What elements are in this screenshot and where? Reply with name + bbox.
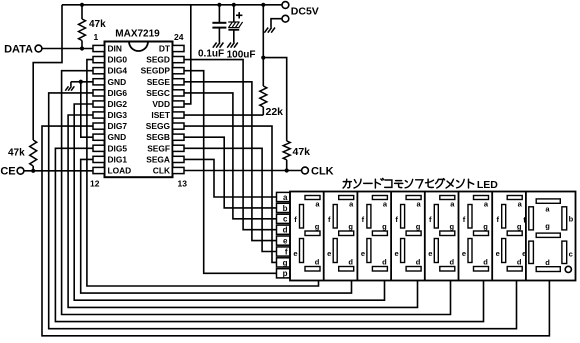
svg-text:b: b: [569, 215, 574, 224]
wire SEGB to segment bus b: [184, 137, 277, 208]
node rail junction 22k branch: [261, 3, 265, 7]
svg-text:d: d: [315, 257, 320, 266]
svg-text:d: d: [483, 257, 488, 266]
capacitor C2 100uF: [228, 5, 242, 43]
7-segment display block: [290, 192, 576, 281]
U1 right pin labels: [141, 44, 171, 176]
terminal DC5V +: [282, 2, 289, 9]
svg-text:g: g: [348, 222, 353, 231]
svg-text:b: b: [283, 204, 288, 213]
svg-text:DIG3: DIG3: [108, 110, 128, 120]
svg-text:e: e: [395, 249, 399, 258]
svg-text:c: c: [569, 249, 573, 258]
node junction R1-DATA: [80, 46, 84, 50]
wire gnd terminal lead: [271, 19, 282, 28]
svg-text:GND: GND: [108, 77, 127, 87]
digit 7 segments: [496, 196, 523, 272]
digit 4 segments: [395, 196, 422, 272]
node rail junction C1: [217, 3, 221, 7]
svg-text:DIN: DIN: [108, 44, 122, 54]
svg-text:e: e: [496, 249, 500, 258]
wire DATA to DIN: [42, 48, 93, 50]
resistor R4 47k (CLK pull-up): [283, 141, 290, 171]
ground (C1): [213, 43, 224, 48]
label pin 24: [174, 32, 184, 42]
wire DIG7 to digit 8 common: [42, 126, 549, 336]
wire DIG5 to digit 6 common: [55, 148, 483, 321]
svg-text:d: d: [517, 257, 522, 266]
svg-text:SEGD: SEGD: [146, 55, 170, 65]
svg-text:g: g: [483, 222, 488, 231]
label DATA: [4, 43, 33, 55]
node junction GND: [79, 80, 83, 84]
svg-text:a: a: [283, 193, 288, 202]
svg-text:LED: LED: [477, 179, 498, 191]
ground (U1 GND): [65, 82, 81, 91]
svg-text:DATA: DATA: [4, 43, 33, 55]
label R2 47k: [8, 148, 25, 159]
svg-text:SEGF: SEGF: [147, 143, 170, 153]
svg-text:e: e: [428, 249, 432, 258]
svg-text:e: e: [283, 237, 288, 246]
wire DIG0 to digit 1 common: [87, 60, 319, 286]
svg-text:g: g: [450, 222, 455, 231]
wire DIG6 to digit 7 common: [49, 93, 517, 329]
digit 8 segments: [522, 199, 573, 273]
svg-text:g: g: [315, 222, 320, 231]
wire SEGC to segment bus c: [184, 93, 277, 219]
digit 6 segments: [462, 196, 489, 272]
digit 1 segments: [293, 196, 320, 272]
svg-text:DIG2: DIG2: [108, 99, 128, 109]
digit 3 segments: [361, 196, 388, 272]
svg-text:d: d: [545, 258, 550, 267]
label C1 0.1uF: [198, 49, 224, 60]
svg-text:GND: GND: [108, 132, 127, 142]
terminal CLK: [302, 167, 309, 174]
svg-text:g: g: [382, 222, 387, 231]
label R1 47k: [89, 19, 106, 30]
wire DIG4 to digit 5 common: [62, 71, 451, 315]
wire VDD to rail: [184, 5, 191, 104]
svg-text:1: 1: [94, 32, 99, 42]
terminal DATA: [35, 45, 42, 52]
node junction R2-CE: [31, 169, 35, 173]
node junction R4-CLK: [285, 168, 289, 172]
svg-text:SEGB: SEGB: [146, 132, 170, 142]
label pin 12: [90, 178, 100, 188]
label C2 100uF: [227, 50, 256, 61]
svg-text:DIG7: DIG7: [108, 121, 128, 131]
svg-text:d: d: [382, 257, 387, 266]
wire SEGA to segment bus a: [184, 159, 277, 197]
svg-text:SEGG: SEGG: [146, 121, 170, 131]
node rail junction C2: [232, 3, 236, 7]
svg-text:d: d: [348, 257, 353, 266]
wire SEGF to segment bus f: [184, 148, 277, 251]
ground (DC5V return): [264, 28, 275, 33]
svg-text:SEGA: SEGA: [146, 154, 170, 164]
label CLK: [311, 166, 334, 178]
label display title (katakana): [343, 178, 498, 190]
svg-text:13: 13: [178, 178, 188, 188]
wire SEGDP to segment bus p: [184, 71, 277, 274]
svg-text:g: g: [517, 222, 522, 231]
svg-text:SEGDP: SEGDP: [141, 66, 171, 76]
svg-text:d: d: [450, 257, 455, 266]
svg-text:d: d: [416, 257, 421, 266]
label U1 MAX7219: [115, 29, 160, 40]
svg-text:47k: 47k: [8, 148, 25, 159]
svg-text:DC5V: DC5V: [291, 6, 319, 18]
svg-text:e: e: [462, 249, 466, 258]
svg-text:47k: 47k: [89, 19, 106, 30]
svg-text:g: g: [416, 222, 421, 231]
segment bus pin boxes: [277, 192, 291, 278]
svg-text:MAX7219: MAX7219: [115, 29, 160, 40]
svg-text:DIG5: DIG5: [108, 143, 128, 153]
U1 left pin boxes: [93, 45, 105, 173]
resistor R2 47k (CE pull-up): [30, 140, 37, 171]
svg-text:c: c: [283, 215, 288, 224]
svg-text:e: e: [361, 249, 365, 258]
label pin 1: [94, 32, 99, 42]
resistor R3 22k (ISET): [260, 58, 267, 115]
svg-text:DIG4: DIG4: [108, 66, 128, 76]
svg-text:SEGC: SEGC: [146, 88, 170, 98]
svg-text:p: p: [283, 269, 288, 278]
U1 right pin boxes: [173, 45, 185, 173]
wire VCC left drop to CE pull-up: [33, 5, 62, 140]
capacitor C1 0.1uF: [212, 5, 226, 43]
digit 5 segments: [428, 196, 455, 272]
svg-text:DT: DT: [159, 44, 171, 54]
svg-text:DIG1: DIG1: [108, 154, 128, 164]
svg-text:0.1uF: 0.1uF: [198, 49, 224, 60]
label pin 13: [178, 178, 188, 188]
resistor R1 47k (DIN pull-up): [79, 5, 86, 49]
svg-text:12: 12: [90, 178, 100, 188]
wire DIG2 to digit 3 common: [74, 104, 384, 300]
svg-text:DIG0: DIG0: [108, 55, 128, 65]
wire rail to branch node: [262, 5, 264, 58]
svg-text:e: e: [293, 249, 297, 258]
IC U1 MAX7219 body: [105, 42, 173, 178]
terminal CE: [17, 167, 24, 174]
wire SEGE to segment bus e: [184, 82, 277, 241]
svg-text:CLK: CLK: [153, 166, 170, 176]
digit 2 segments: [327, 196, 354, 272]
label C2 polarity +: [236, 12, 242, 18]
svg-text:47k: 47k: [293, 146, 311, 158]
terminal DC5V gnd: [282, 15, 289, 22]
svg-text:22k: 22k: [266, 106, 284, 118]
wire ISET to R3: [184, 114, 263, 116]
svg-text:CLK: CLK: [311, 166, 334, 178]
label CE: [0, 166, 15, 178]
wire DIG1 to digit 2 common: [81, 159, 352, 293]
wire branch to R4: [263, 58, 286, 141]
svg-text:e: e: [327, 249, 331, 258]
svg-text:VDD: VDD: [152, 99, 170, 109]
wire CE to LOAD: [24, 170, 93, 172]
svg-text:ISET: ISET: [151, 110, 170, 120]
ground (C2): [227, 43, 238, 48]
wire VCC power rail: [62, 4, 282, 6]
svg-text:e: e: [522, 249, 526, 258]
svg-text:24: 24: [174, 32, 184, 42]
wire DIG3 to digit 4 common: [68, 115, 417, 307]
wire GND pins link: [81, 82, 93, 137]
svg-text:d: d: [283, 226, 288, 235]
svg-text:LOAD: LOAD: [108, 166, 132, 176]
wire SEGD to segment bus d: [184, 60, 277, 230]
svg-text:g: g: [283, 258, 288, 267]
U1 left pin labels: [108, 44, 132, 176]
svg-text:f: f: [285, 247, 288, 256]
wire CLK pin to terminal: [184, 169, 302, 171]
svg-text:CE: CE: [0, 166, 15, 178]
label R4 47k: [293, 146, 311, 158]
label R3 22k: [266, 106, 284, 118]
wire SEGG to segment bus g: [184, 126, 277, 262]
svg-text:DIG6: DIG6: [108, 88, 128, 98]
node branch junction: [261, 56, 265, 60]
svg-text:g: g: [545, 222, 550, 231]
node rail junction R1: [80, 3, 84, 7]
segment bus pin labels: [283, 193, 288, 278]
label DC5V: [291, 6, 319, 18]
svg-text:SEGE: SEGE: [147, 77, 171, 87]
